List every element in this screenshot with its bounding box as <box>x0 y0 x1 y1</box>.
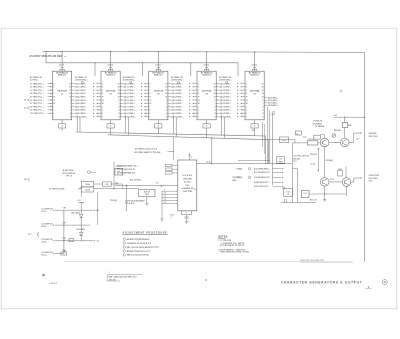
svg-text:12: 12 <box>145 116 147 118</box>
svg-text:7: 7 <box>246 90 247 92</box>
svg-text:15: 15 <box>69 97 71 99</box>
svg-text:14: 14 <box>214 92 216 95</box>
svg-text:5: 5 <box>166 116 167 118</box>
svg-text:PX(N0): PX(N0) <box>237 168 243 170</box>
svg-text:QA 0.0 MHZ +: QA 0.0 MHZ + <box>75 82 86 85</box>
svg-text:2: 2 <box>166 106 167 108</box>
svg-text:4: 4 <box>166 112 167 115</box>
svg-text:5: 5 <box>53 113 54 115</box>
svg-text:74LS165A: 74LS165A <box>250 90 260 93</box>
wire +5V top bus <box>43 51 365 261</box>
svg-text:7: 7 <box>198 116 199 118</box>
wire bundle between IC U1 and U2 <box>72 82 101 119</box>
svg-text:R20 360: R20 360 <box>293 158 300 160</box>
svg-text:(J1-3) +: (J1-3) + <box>41 226 47 228</box>
svg-text:R27 C14: R27 C14 <box>310 199 317 202</box>
svg-text:J3-1: J3-1 <box>356 139 359 141</box>
wire gap vertical U1 <box>77 115 80 132</box>
svg-text:10: 10 <box>241 110 243 112</box>
wire bus A drop to middle IC <box>173 137 175 160</box>
svg-text:QA 0.1 MHZ +: QA 0.1 MHZ + <box>124 82 135 85</box>
label above IC U4 <box>171 76 184 81</box>
svg-text:11: 11 <box>97 113 99 115</box>
svg-text:7: 7 <box>149 116 150 118</box>
svg-text:7: 7 <box>53 90 54 92</box>
svg-text:CR5 1N914: CR5 1N914 <box>71 212 80 215</box>
svg-text:QA 6.3 MHZ +: QA 6.3 MHZ + <box>220 102 231 105</box>
svg-text:13: 13 <box>102 100 104 102</box>
svg-text:3: 3 <box>119 110 120 112</box>
output row 5 <box>254 185 284 187</box>
wire Q4 output arrow <box>351 177 362 182</box>
svg-text:QA 8.2 MHZ +: QA 8.2 MHZ + <box>171 109 182 112</box>
svg-text:.01: .01 <box>287 194 290 196</box>
svg-text:C5 TRIG (TTL) +: C5 TRIG (TTL) + <box>30 97 44 99</box>
svg-text:3: 3 <box>102 83 103 85</box>
svg-text:C5 TRIG (TTL) NN +: C5 TRIG (TTL) NN + <box>49 189 66 191</box>
svg-text:(3.5795 MHZ) +: (3.5795 MHZ) + <box>75 80 88 82</box>
gate U7B <box>81 187 94 192</box>
svg-text:ADJUST R24 FOR 1V P-P: ADJUST R24 FOR 1V P-P <box>127 250 152 253</box>
input row C label and wire <box>41 238 81 244</box>
svg-text:C7 2.2: C7 2.2 <box>310 164 315 166</box>
ladder row outputs <box>81 209 99 242</box>
svg-text:13: 13 <box>262 90 264 92</box>
svg-text:12: 12 <box>194 189 196 191</box>
svg-text:QA 10.2 MHZ +: QA 10.2 MHZ + <box>171 115 183 118</box>
heading NOTES <box>218 235 228 238</box>
svg-text:ROM CG 4: ROM CG 4 <box>202 73 210 76</box>
sheet title ASSY number <box>29 55 66 58</box>
svg-text:2: 2 <box>215 106 216 108</box>
IC U6 lower left pin bus <box>160 190 177 222</box>
svg-text:15: 15 <box>53 103 55 105</box>
svg-text:OUT (75Ω): OUT (75Ω) <box>369 136 378 138</box>
svg-text:.01: .01 <box>160 186 162 188</box>
IC U2 74LS161A <box>101 52 120 120</box>
svg-text:QA 5.0 MHZ +: QA 5.0 MHZ + <box>75 99 86 102</box>
svg-text:11: 11 <box>53 97 55 99</box>
wire clock distribution line <box>46 51 238 76</box>
IC U3 74LS161A <box>149 52 168 120</box>
svg-text:QA 4.0 MHZ +: QA 4.0 MHZ + <box>75 96 86 99</box>
svg-text:QA 8.1 MHZ +: QA 8.1 MHZ + <box>124 109 135 112</box>
svg-text:(C/P) BRTSB /BT TR 1/21/7: (C/P) BRTSB /BT TR 1/21/78 <box>220 245 244 247</box>
svg-text:11: 11 <box>165 83 167 85</box>
svg-text:QA 0.2 MHZ +: QA 0.2 MHZ + <box>171 82 182 85</box>
svg-text:(J1-7) +: (J1-7) + <box>41 255 47 257</box>
svg-text:4: 4 <box>70 112 71 115</box>
IC U5 bottom pin label <box>251 120 258 136</box>
svg-text:C8 TRIG (TTL) +: C8 TRIG (TTL) + <box>30 106 44 108</box>
svg-text:13: 13 <box>198 100 200 102</box>
svg-text:A2/C (B): A2/C (B) <box>109 278 116 281</box>
svg-text:R7 220 (B6) 5%: R7 220 (B6) 5% <box>63 173 76 175</box>
label above IC U5 <box>219 76 232 81</box>
svg-text:.1: .1 <box>170 217 172 219</box>
svg-text:2: 2 <box>70 106 71 108</box>
svg-text:J2-9: J2-9 <box>24 179 27 181</box>
label box C4 TRIG <box>276 157 284 164</box>
svg-text:3: 3 <box>70 110 71 112</box>
transistor Q4 <box>342 178 351 187</box>
svg-text:74L04: 74L04 <box>85 189 90 192</box>
svg-text:R28: R28 <box>338 169 341 171</box>
svg-text:R25: R25 <box>348 125 351 127</box>
faint note above separator <box>300 259 353 263</box>
note line 2 <box>220 242 245 245</box>
svg-text:11: 11 <box>262 83 264 85</box>
svg-text:1: 1 <box>119 103 120 105</box>
svg-text:3: 3 <box>149 83 150 85</box>
input signal labels left of U1 <box>30 83 53 115</box>
wire bundle between IC U3 and U4 <box>168 82 197 119</box>
svg-text:Q1 2N3906 +: Q1 2N3906 + <box>315 126 325 128</box>
label above IC U2 <box>75 76 88 81</box>
svg-text:7: 7 <box>149 90 150 92</box>
svg-text:+L5V 13: +L5V 13 <box>251 65 257 67</box>
svg-text:C13: C13 <box>304 193 307 195</box>
component box right <box>284 189 293 197</box>
note line 4 <box>218 248 246 251</box>
labels above gates <box>63 169 96 178</box>
svg-text:1: 1 <box>109 272 110 274</box>
IC U3 bottom pin label <box>155 120 162 134</box>
svg-text:QA 2.0 MHZ +: QA 2.0 MHZ + <box>75 89 86 92</box>
svg-text:QA 4.2 MHZ +: QA 4.2 MHZ + <box>171 96 182 99</box>
svg-text:QA 7.0 MHZ +: QA 7.0 MHZ + <box>75 105 86 108</box>
svg-text:11: 11 <box>149 97 151 99</box>
svg-text:TP5 4LS74: TP5 4LS74 <box>125 202 134 205</box>
svg-text:ROM CG 5: ROM CG 5 <box>250 74 258 76</box>
svg-text:C6 TRIG (TTL) +: C6 TRIG (TTL) + <box>30 100 44 102</box>
resistor R24 box <box>314 135 321 139</box>
svg-text:+5 RTN: +5 RTN <box>116 166 123 168</box>
svg-text:13: 13 <box>165 90 167 92</box>
gate U7A <box>81 181 94 187</box>
svg-text:Q8 2N MHZ +: Q8 2N MHZ + <box>268 105 278 107</box>
svg-text:SEE A COLLECTOR Q2: SEE A COLLECTOR Q2 <box>127 254 150 257</box>
svg-text:CONNECT AL SCOPE P-P: CONNECT AL SCOPE P-P <box>127 242 152 245</box>
svg-text:5: 5 <box>149 113 150 115</box>
svg-text:C3 TRIG (TTL) +: C3 TRIG (TTL) + <box>30 90 44 92</box>
IC U1 74LS161A <box>53 52 72 120</box>
svg-text:10: 10 <box>145 110 147 112</box>
input row B label and wire <box>41 222 81 228</box>
row 4 component C14 <box>61 249 67 255</box>
adjustment item 5 <box>123 254 150 257</box>
svg-text:1: 1 <box>215 103 216 105</box>
svg-text:15: 15 <box>102 103 104 105</box>
input row A label and wire <box>41 208 81 214</box>
junction dots on top bus <box>61 51 255 53</box>
heading ADJUSTMENT PROCEDURE <box>122 231 167 234</box>
svg-text:QA 5.3 MHZ +: QA 5.3 MHZ + <box>220 99 231 102</box>
svg-text:QA 3.1 MHZ +: QA 3.1 MHZ + <box>124 92 135 95</box>
svg-text:TP6 455: TP6 455 <box>233 176 240 179</box>
svg-text:TP8 1K2: TP8 1K2 <box>310 154 317 156</box>
svg-text:14: 14 <box>118 92 120 95</box>
svg-text:4LS 08: 4LS 08 <box>144 190 150 193</box>
svg-text:QA 1.3 MHZ +: QA 1.3 MHZ + <box>220 86 231 89</box>
svg-text:0: 0 <box>119 100 120 102</box>
svg-text:ROM CG 1: ROM CG 1 <box>58 74 66 76</box>
svg-text:+LOADING DIV: +LOADING DIV <box>181 187 195 190</box>
svg-text:14: 14 <box>165 92 167 95</box>
svg-text:3: 3 <box>215 110 216 112</box>
svg-text:9: 9 <box>102 93 103 95</box>
svg-text:R9: R9 <box>117 171 119 173</box>
svg-text:9: 9 <box>246 93 247 95</box>
svg-text:3: 3 <box>149 110 150 112</box>
svg-text:10: 10 <box>97 110 99 112</box>
note line 5 <box>220 252 249 254</box>
svg-text:11: 11 <box>118 83 120 85</box>
svg-text:4: 4 <box>119 112 120 115</box>
drawing title CHARACTER GENERATORS <box>281 280 387 289</box>
svg-text:12: 12 <box>214 87 216 89</box>
svg-text:13: 13 <box>164 202 166 204</box>
svg-text:11: 11 <box>193 113 195 115</box>
svg-text:3: 3 <box>166 110 167 112</box>
svg-text:9: 9 <box>164 190 165 192</box>
label row under K1 <box>125 200 145 206</box>
svg-text:N14: N14 <box>145 193 148 196</box>
svg-text:13: 13 <box>246 100 248 102</box>
svg-text:74L04: 74L04 <box>85 183 90 186</box>
svg-text:1: 1 <box>246 106 247 108</box>
wire gap vertical U4 <box>222 115 225 138</box>
svg-text:+L5V 9: +L5V 9 <box>59 65 64 67</box>
svg-text:QA 3.2 MHZ +: QA 3.2 MHZ + <box>171 92 182 95</box>
IC U2 bottom pin label <box>107 120 114 135</box>
svg-text:74LS161A: 74LS161A <box>106 90 116 93</box>
svg-text:5: 5 <box>246 87 247 89</box>
svg-text:2: 2 <box>263 106 264 108</box>
wire U5 outputs down <box>238 107 273 185</box>
svg-text:(C TRIG) +: (C TRIG) + <box>30 80 39 82</box>
svg-text:7: 7 <box>53 116 54 118</box>
svg-text:10: 10 <box>193 110 195 112</box>
label TP2 under U5 <box>252 130 255 132</box>
capacitor C15 under U6 <box>170 214 188 223</box>
svg-text:15: 15 <box>214 97 216 99</box>
svg-text:C1 TRIG (TTL) +: C1 TRIG (TTL) + <box>30 83 44 85</box>
svg-text:15: 15 <box>165 97 167 99</box>
svg-text:QA 10.3 MHZ +: QA 10.3 MHZ + <box>220 115 232 118</box>
transistor Q3 <box>320 178 329 187</box>
svg-text:13: 13 <box>149 100 151 102</box>
svg-text:12: 12 <box>241 116 243 118</box>
svg-text:E (223 KHZ) OUT +: E (223 KHZ) OUT + <box>254 186 270 188</box>
svg-text:C12: C12 <box>286 191 289 193</box>
svg-text:QA 2.3 MHZ +: QA 2.3 MHZ + <box>220 89 231 92</box>
transistor Q2 <box>340 138 349 147</box>
connector J2 stub 2 <box>24 106 30 109</box>
diode CR5 <box>71 210 83 225</box>
svg-text:+5V (SEE SHEET 2, TP6 0A): +5V (SEE SHEET 2, TP6 0A) <box>134 151 161 154</box>
svg-text:15: 15 <box>246 103 248 105</box>
svg-text:7: 7 <box>246 116 247 118</box>
svg-text:1: 1 <box>149 106 150 108</box>
svg-text:TP7: TP7 <box>293 161 296 163</box>
svg-text:QA 8.3 MHZ +: QA 8.3 MHZ + <box>220 109 231 112</box>
svg-text:12: 12 <box>97 116 99 118</box>
IC U6 bottom label box <box>182 211 192 215</box>
label above IC U1 <box>30 76 42 81</box>
svg-text:C7 TRIG (TTL) +: C7 TRIG (TTL) + <box>30 103 44 105</box>
diode CR6 <box>76 225 85 241</box>
svg-text:3: 3 <box>246 83 247 85</box>
svg-text:MWO-4007 TPN MWA-PCN: MWO-4007 TPN MWA-PCN <box>300 259 324 262</box>
svg-text:3: 3 <box>198 110 199 112</box>
svg-text:TRIG: TRIG <box>278 161 283 163</box>
svg-text:ROM CG 3: ROM CG 3 <box>154 74 162 76</box>
svg-text:4LS47 TP(N) +: 4LS47 TP(N) + <box>63 169 75 172</box>
svg-text:QA 1.0 MHZ +: QA 1.0 MHZ + <box>75 86 86 89</box>
test point line TP8 <box>310 148 319 172</box>
svg-text:QA 6.2 MHZ +: QA 6.2 MHZ + <box>171 102 182 105</box>
label TP6 block <box>233 176 240 182</box>
svg-text:13: 13 <box>214 90 216 92</box>
svg-text:11: 11 <box>241 113 243 115</box>
labels Q1 Q2 <box>296 120 341 139</box>
svg-text:0: 0 <box>263 100 264 102</box>
resistor R25 above Q2 <box>334 115 365 138</box>
svg-text:4: 4 <box>263 112 264 115</box>
svg-text:15: 15 <box>262 97 264 99</box>
IC U6 upper left pins with diodes <box>117 164 178 174</box>
svg-text:1: 1 <box>198 106 199 108</box>
wire bus B drop to output line <box>211 137 212 164</box>
input row D label and wire <box>41 251 66 257</box>
wire R11 column down to ladder <box>97 192 98 225</box>
svg-text:1: 1 <box>70 103 71 105</box>
svg-text:QA 9.0 MHZ +: QA 9.0 MHZ + <box>75 112 86 115</box>
svg-text:C4: C4 <box>279 158 281 161</box>
label +5V feed line <box>134 147 174 154</box>
svg-text:0: 0 <box>215 100 216 102</box>
component box R9 <box>115 168 123 175</box>
svg-text:TWN LT/M BLSCO TRBN, T/27902: TWN LT/M BLSCO TRBN, T/27902 <box>220 252 249 254</box>
svg-text:QA 10.1 MHZ +: QA 10.1 MHZ + <box>124 115 136 118</box>
svg-text:CHARACTER GENERATORS & OUTP: CHARACTER GENERATORS & OUTPUT <box>281 280 362 284</box>
svg-text:1: 1 <box>263 103 264 105</box>
svg-text:+L5V 12: +L5V 12 <box>203 65 209 67</box>
svg-text:+5V R24 1K: +5V R24 1K <box>313 120 323 123</box>
wire bus risers right <box>266 136 296 164</box>
svg-text:+L5V 11: +L5V 11 <box>155 65 161 67</box>
svg-text:7: 7 <box>198 90 199 92</box>
wire Q2 output arrow <box>349 132 362 142</box>
svg-text:QA 2.1 MHZ +: QA 2.1 MHZ + <box>124 89 135 92</box>
svg-text:QA 0.3 MHZ +: QA 0.3 MHZ + <box>220 82 231 85</box>
svg-text:12: 12 <box>69 87 71 89</box>
separator line <box>64 261 353 263</box>
svg-text:12: 12 <box>164 199 166 201</box>
label cluster left of U6 <box>130 178 162 188</box>
svg-text:9: 9 <box>198 93 199 95</box>
svg-text:5: 5 <box>102 113 103 115</box>
svg-text:TP1 C6: TP1 C6 <box>66 176 72 178</box>
svg-text:12: 12 <box>193 116 195 118</box>
svg-text:7: 7 <box>102 116 103 118</box>
svg-text:Q2 2N3904: Q2 2N3904 <box>313 122 322 125</box>
wire Q3-Q4 link <box>329 178 342 182</box>
wire bundle between IC U2 and U3 <box>120 82 149 119</box>
wires below Q3 Q4 <box>281 164 347 203</box>
svg-text:11: 11 <box>69 83 71 85</box>
bottom-left doc number <box>49 282 58 285</box>
svg-text:R11: R11 <box>105 184 108 186</box>
output row 1 <box>237 167 284 170</box>
svg-text:11: 11 <box>214 83 216 85</box>
svg-text:3: 3 <box>198 83 199 85</box>
wire C5 trig line <box>49 188 139 191</box>
wire bundle between IC U4 and U5 <box>216 82 245 119</box>
svg-text:C10 TRIG (TTL) +: C10 TRIG (TTL) + <box>30 113 45 115</box>
svg-text:QA 6.1 MHZ +: QA 6.1 MHZ + <box>124 102 135 105</box>
svg-text:9: 9 <box>149 93 150 95</box>
svg-text:74LS161A: 74LS161A <box>57 90 67 93</box>
wire Q1 to Q3 link <box>325 147 333 178</box>
resistor R28 above Q4 <box>338 167 346 178</box>
svg-text:15: 15 <box>118 97 120 99</box>
svg-text:QA 7.2 MHZ +: QA 7.2 MHZ + <box>171 105 182 108</box>
output row 2 <box>254 172 284 174</box>
svg-text:5: 5 <box>246 113 247 115</box>
svg-text:2: 2 <box>119 106 120 108</box>
svg-text:QA 5.1 MHZ +: QA 5.1 MHZ + <box>124 99 135 102</box>
release arrow mark <box>43 273 46 276</box>
svg-text:13: 13 <box>118 90 120 92</box>
svg-text:R26 360: R26 360 <box>334 130 341 132</box>
svg-text:74LS161A: 74LS161A <box>154 90 164 93</box>
wire U6 output line <box>197 162 293 164</box>
svg-text:1: 1 <box>102 106 103 108</box>
svg-text:QA 7.1 MHZ +: QA 7.1 MHZ + <box>124 105 135 108</box>
svg-text:+5V: +5V <box>282 140 286 142</box>
svg-text:11: 11 <box>246 97 248 99</box>
svg-text:0: 0 <box>70 100 71 102</box>
svg-text:B (1.789 MHZ) OUT: B (1.789 MHZ) OUT <box>254 172 271 174</box>
IC U1 bottom pin label <box>59 120 66 131</box>
svg-text:C (0.894 MHZ) OUT: C (0.894 MHZ) OUT <box>254 176 271 179</box>
wire U5 bundle verticals <box>263 122 265 154</box>
svg-text:1: 1 <box>166 103 167 105</box>
svg-text:J3-2: J3-2 <box>369 180 373 182</box>
svg-text:12: 12 <box>262 87 264 89</box>
svg-text:9: 9 <box>53 93 54 95</box>
svg-text:R18: R18 <box>272 114 275 116</box>
revision table <box>107 272 142 282</box>
IC U6 74LS124 VCO <box>178 153 197 211</box>
svg-text:QA 10.0 MHZ +: QA 10.0 MHZ + <box>75 115 87 118</box>
svg-text:3: 3 <box>53 83 54 85</box>
svg-text:QA 7.3 MHZ +: QA 7.3 MHZ + <box>220 105 231 108</box>
row 3 junction box <box>69 238 73 241</box>
svg-text:5: 5 <box>102 87 103 89</box>
svg-text:10: 10 <box>164 193 166 195</box>
svg-text:ADJUST R3 INTERVALS: ADJUST R3 INTERVALS <box>127 238 150 241</box>
svg-text:11: 11 <box>198 97 200 99</box>
svg-text:(J1-1) +: (J1-1) + <box>41 211 47 213</box>
svg-text:R22 (B6): R22 (B6) <box>326 160 333 162</box>
svg-text:12: 12 <box>165 87 167 89</box>
svg-text:R21 1K: R21 1K <box>309 139 316 141</box>
IC U5 right pin labels <box>264 97 278 107</box>
wire horizontal bus A <box>76 132 266 136</box>
